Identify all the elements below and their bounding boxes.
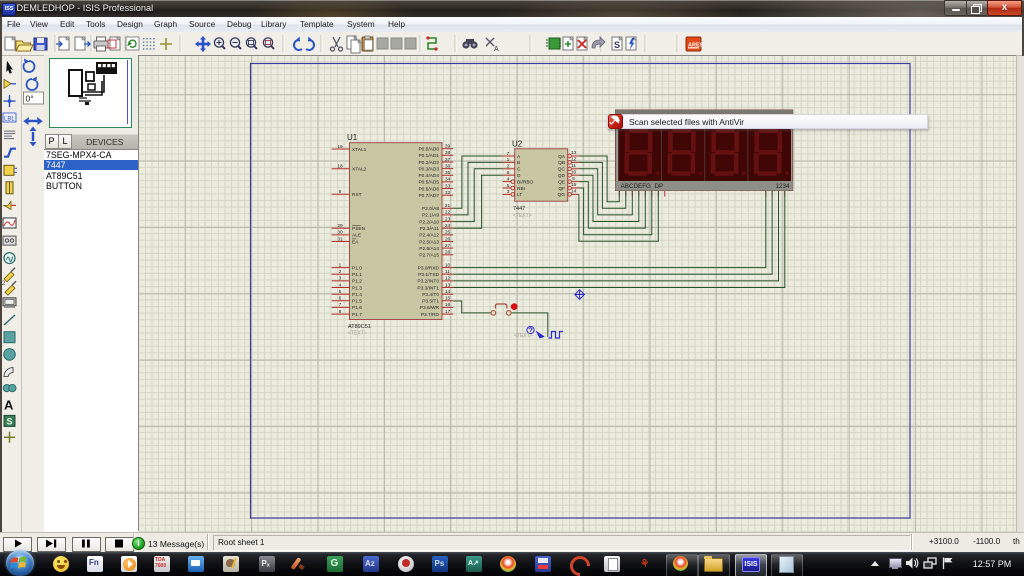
toolbar: cut [331, 37, 343, 51]
wire U2.QE to display E [579, 182, 645, 229]
svg-text:RST: RST [352, 192, 362, 198]
L button [58, 134, 72, 149]
svg-text:P2.5/A13: P2.5/A13 [419, 239, 439, 245]
svg-text:19: 19 [337, 144, 343, 150]
svg-text:QC: QC [558, 167, 566, 173]
svg-text:5: 5 [339, 289, 342, 295]
svg-text:LT: LT [517, 192, 522, 198]
svg-text:P1.1: P1.1 [352, 272, 362, 278]
wire U2.QA to display A [579, 156, 619, 202]
window buttons [944, 0, 968, 16]
svg-text:7: 7 [339, 302, 342, 308]
tool: component [4, 79, 16, 88]
wire P3.5 to button to clock [453, 301, 548, 337]
svg-text:4: 4 [339, 282, 342, 288]
preview MCU [69, 70, 82, 96]
svg-text:4: 4 [507, 176, 510, 182]
svg-text:QF: QF [558, 186, 565, 192]
svg-text:P3.6/WR: P3.6/WR [420, 305, 440, 311]
svg-text:15: 15 [445, 296, 451, 302]
svg-text:36: 36 [445, 163, 451, 169]
tool: 2dcircle [4, 349, 16, 361]
wire P2.1/A9 to U2.B [453, 162, 502, 215]
svg-text:P0.0/AD0: P0.0/AD0 [418, 147, 439, 153]
wire U2.QD to display D [579, 175, 639, 221]
taskbar [0, 552, 1024, 576]
svg-text:<TEXT>: <TEXT> [348, 331, 367, 337]
svg-text:B: B [517, 160, 520, 166]
svg-text:39: 39 [445, 144, 451, 150]
wire P2.2/A10 to U2.C [453, 169, 502, 222]
tool: subcircuit [4, 165, 17, 175]
status bar [0, 532, 1024, 554]
svg-text:P1.2: P1.2 [352, 279, 362, 285]
svg-text:35: 35 [445, 170, 451, 176]
toolbar: ares [686, 37, 704, 51]
taskbar app button isis [735, 554, 767, 576]
svg-text:9: 9 [572, 176, 575, 182]
sheet border [251, 64, 911, 519]
button [491, 303, 518, 315]
clock generator DCLOCK [527, 326, 563, 338]
svg-text:QB: QB [558, 160, 565, 166]
svg-text:29: 29 [337, 223, 343, 229]
svg-text:AT89C51: AT89C51 [348, 324, 371, 330]
taskbar app button page [771, 554, 803, 576]
toolbar: copy [347, 36, 357, 49]
svg-text:ABCDEFG DP: ABCDEFG DP [621, 183, 664, 190]
svg-text:30: 30 [337, 230, 343, 236]
wire U2.QC to display C [579, 169, 632, 215]
svg-text:27: 27 [445, 243, 451, 249]
taskbar icon fn [87, 556, 103, 572]
toolbar: block-ops [377, 38, 388, 49]
P button [45, 134, 59, 149]
taskbar icon palette [223, 556, 239, 572]
tool: selector [6, 61, 13, 74]
toolbar: script [612, 37, 622, 50]
tool: 2dtext [4, 397, 14, 412]
svg-text:37: 37 [445, 157, 451, 163]
taskbar icon smiley [53, 556, 69, 572]
tool: textscript [4, 131, 15, 139]
taskbar icon px [259, 556, 275, 572]
tool: instrument [3, 298, 16, 308]
svg-text:P3.7/RD: P3.7/RD [421, 312, 440, 318]
svg-text:P1.3: P1.3 [352, 285, 362, 291]
svg-text:P0.4/AD4: P0.4/AD4 [418, 173, 439, 179]
svg-text:14: 14 [571, 189, 577, 195]
U2 left pins [503, 151, 534, 198]
svg-text:23: 23 [445, 216, 451, 222]
svg-text:P2.6/A14: P2.6/A14 [419, 246, 439, 252]
svg-text:P3.1/TXD: P3.1/TXD [418, 272, 439, 278]
svg-text:<TEXT>: <TEXT> [513, 213, 532, 219]
taskbar icon doc [604, 556, 620, 572]
toolbar: grid [143, 38, 155, 50]
svg-text:S: S [7, 416, 13, 426]
svg-text:11: 11 [445, 269, 450, 275]
svg-text:QG: QG [558, 192, 566, 198]
svg-text:P0.6/AD6: P0.6/AD6 [418, 186, 439, 192]
7-segment display DS1 [616, 110, 793, 191]
svg-text:22: 22 [445, 210, 451, 216]
tool: 2dsymbol [4, 415, 15, 426]
preview display [96, 62, 117, 74]
mirror vertical [30, 127, 37, 147]
svg-text:10: 10 [571, 169, 577, 175]
svg-text:1: 1 [339, 262, 342, 268]
svg-text:P0.2/AD2: P0.2/AD2 [418, 160, 439, 166]
toolbar: zoom-out [230, 38, 241, 49]
taskbar icon ps [432, 556, 448, 572]
start orb [6, 550, 34, 576]
toolbar: mark-area [110, 37, 120, 50]
tool: iprobe [2, 281, 16, 295]
svg-text:18: 18 [337, 164, 343, 170]
svg-text:17: 17 [445, 309, 451, 315]
svg-text:2: 2 [339, 269, 342, 275]
taskbar icon az [363, 556, 379, 572]
svg-text:D: D [517, 173, 521, 179]
svg-text:P3.4/T0: P3.4/T0 [422, 292, 439, 298]
toolbar: zoom-in [214, 38, 225, 49]
origin marker [575, 290, 585, 300]
tool: tape [3, 236, 16, 245]
schematic svg [139, 56, 1016, 532]
svg-text:13: 13 [571, 150, 577, 156]
svg-text:28: 28 [445, 250, 451, 256]
svg-text:8: 8 [339, 309, 342, 315]
svg-text:<TEXT>: <TEXT> [514, 333, 533, 339]
svg-text:33: 33 [445, 183, 451, 189]
wire display digit 1 to P3.0/RXD [453, 191, 766, 268]
svg-text:P2.0/A8: P2.0/A8 [422, 206, 439, 212]
toolbar: open [16, 41, 33, 51]
svg-text:P3.5/T1: P3.5/T1 [422, 299, 439, 305]
taskbar icon ball [398, 556, 414, 572]
svg-text:21: 21 [445, 203, 451, 209]
toolbar: new [5, 37, 15, 50]
wire display digit 3 to P3.2/INT0 [453, 191, 778, 281]
svg-text:LBL: LBL [4, 117, 15, 123]
svg-text:S: S [614, 40, 620, 50]
toolbar: pan [195, 36, 211, 52]
taskbar app button chrome [666, 554, 698, 576]
svg-text:P0.5/AD5: P0.5/AD5 [418, 180, 439, 186]
svg-text:32: 32 [445, 190, 451, 196]
svg-text:9: 9 [339, 189, 342, 195]
svg-text:1: 1 [507, 157, 510, 163]
taskbar icon g [327, 556, 343, 572]
svg-text:PSEN: PSEN [352, 226, 366, 232]
toolbar: origin [160, 38, 172, 50]
tool: terminal [6, 182, 13, 194]
svg-text:24: 24 [445, 223, 451, 229]
wire P2.3/A11 to U2.D [453, 175, 502, 228]
tool: vprobe [4, 268, 15, 282]
svg-text:P0.7/AD7: P0.7/AD7 [418, 193, 439, 199]
svg-text:P2.1/A9: P2.1/A9 [422, 213, 439, 219]
decoder U2 7447 [512, 140, 568, 220]
taskbar icon pen [291, 556, 307, 572]
wire display digit 2 to P3.1/TXD [453, 191, 772, 275]
toolbar: goto-sheet [592, 37, 605, 48]
taskbar icon av [466, 556, 482, 572]
svg-text:P2.4/A12: P2.4/A12 [419, 233, 439, 239]
tool: 2dpath [3, 385, 16, 392]
svg-text:P1.7: P1.7 [352, 312, 362, 318]
svg-text:13: 13 [445, 282, 451, 288]
svg-text:3: 3 [339, 276, 342, 282]
svg-text:P2.3/A11: P2.3/A11 [420, 226, 440, 232]
U1 right pins [417, 144, 453, 318]
svg-text:P1.4: P1.4 [352, 292, 362, 298]
title bar [0, 0, 1024, 17]
svg-text:P1.5: P1.5 [352, 299, 362, 305]
wires display digits to P3.0-P3.3 [453, 191, 785, 288]
mirror horizontal [23, 117, 43, 125]
toolbar: export [75, 37, 85, 50]
svg-text:10: 10 [445, 262, 451, 268]
svg-text:P3.2/INT0: P3.2/INT0 [417, 279, 439, 285]
U2 right pins [558, 150, 579, 198]
toolbar: search [462, 39, 477, 49]
preview window [49, 58, 132, 128]
sim stop button [105, 537, 134, 552]
taskbar icon creative [569, 556, 585, 572]
svg-text:2: 2 [507, 164, 510, 170]
svg-text:XTAL1: XTAL1 [352, 147, 367, 153]
svg-text:11: 11 [571, 163, 576, 169]
svg-text:RBI: RBI [517, 186, 525, 192]
toolbar: property [486, 38, 494, 46]
tool: 2darc [4, 368, 13, 377]
toolbar: import [59, 37, 69, 50]
tool: 2dline [4, 315, 15, 325]
svg-text:QE: QE [558, 179, 565, 185]
tool: generator [4, 253, 15, 264]
toolbar: redo [306, 40, 314, 50]
svg-text:5: 5 [507, 183, 510, 189]
toolbar: add-sheet [563, 37, 573, 50]
sim play button [3, 537, 32, 552]
coords panel [921, 535, 1021, 549]
message icon [132, 537, 145, 550]
U1 left pins [332, 144, 367, 318]
svg-text:34: 34 [445, 177, 451, 183]
svg-text:2: 2 [2, 281, 6, 287]
taskbar icon floppy [535, 556, 551, 572]
left strips [0, 56, 22, 532]
toolbar: paste [362, 36, 373, 51]
svg-text:P0.3/AD3: P0.3/AD3 [418, 166, 439, 172]
svg-text:A: A [494, 46, 499, 53]
svg-text:P1.6: P1.6 [352, 305, 362, 311]
banner [607, 114, 928, 130]
svg-text:26: 26 [445, 236, 451, 242]
toolbar: print [94, 37, 108, 51]
svg-text:P1.0: P1.0 [352, 265, 362, 271]
tray [871, 561, 879, 566]
root sheet panel [213, 535, 911, 551]
tool: devicepin [4, 201, 16, 209]
svg-text:7447: 7447 [513, 206, 525, 212]
svg-text:ALE: ALE [352, 233, 361, 239]
op-amp U1 [347, 133, 442, 337]
svg-text:0°: 0° [26, 94, 34, 104]
svg-text:38: 38 [445, 150, 451, 156]
tool: wirelabel [3, 113, 16, 123]
wire display digit 4 to P3.3/INT1 [453, 191, 785, 288]
svg-text:P2.7/A15: P2.7/A15 [419, 253, 439, 259]
DEVICES header [72, 134, 138, 150]
svg-text:C: C [517, 167, 521, 173]
tool: 2dbox [4, 332, 15, 343]
svg-text:U1: U1 [347, 133, 358, 142]
taskbar icon msg [188, 556, 204, 572]
toolbar: undo [294, 40, 302, 50]
tool: 2dmarker [4, 432, 15, 443]
canvas [139, 56, 1016, 532]
svg-text:P2.2/A10: P2.2/A10 [419, 219, 439, 225]
svg-text:12: 12 [445, 276, 451, 282]
svg-text:25: 25 [445, 230, 451, 236]
wire U2.QB to display B [579, 162, 626, 208]
svg-text:U2: U2 [512, 140, 523, 149]
svg-text:1234: 1234 [775, 183, 790, 190]
antivir umbrella icon [608, 114, 624, 130]
tool: graph [3, 218, 16, 228]
toolbar: electrical-check [626, 37, 636, 50]
preview wires [82, 75, 104, 95]
svg-text:P3.3/INT1: P3.3/INT1 [417, 285, 439, 291]
taskbar icon acrobat [638, 556, 654, 572]
wire U2.QF to display F [579, 188, 652, 235]
svg-text:P0.1/AD1: P0.1/AD1 [418, 153, 439, 159]
svg-text:6: 6 [339, 296, 342, 302]
svg-text:3: 3 [507, 189, 510, 195]
sim step button [37, 537, 66, 552]
menu bar [0, 17, 1024, 33]
preview 7447 [86, 72, 94, 81]
svg-text:EA: EA [352, 239, 359, 245]
toolbar: zoom-all [246, 38, 257, 49]
toolbar [0, 32, 1024, 56]
wires U2 outputs to display segments [579, 156, 658, 241]
tool: bus [4, 149, 16, 157]
app icon [2, 3, 16, 16]
toolbar: delete [577, 37, 587, 50]
wire U2.QG to display G [579, 191, 658, 242]
taskbar icon chromium [500, 556, 516, 572]
toolbar: refresh [126, 37, 139, 50]
taskbar icon wmp [121, 556, 137, 572]
wires P2 to U2 [453, 156, 502, 228]
clock [964, 559, 1020, 569]
toolbar: save [34, 38, 47, 50]
rotate cw [23, 59, 34, 72]
svg-text:16: 16 [445, 302, 451, 308]
rotate ccw [27, 77, 38, 90]
svg-text:P3.0/RXD: P3.0/RXD [418, 265, 440, 271]
toolbar: zoom-area [263, 38, 274, 49]
tool: junction [4, 95, 16, 107]
svg-text:QD: QD [558, 173, 566, 179]
svg-text:QA: QA [558, 154, 566, 160]
svg-text:BI/RBO: BI/RBO [517, 179, 534, 185]
svg-text:15: 15 [571, 182, 577, 188]
taskbar icon tda [154, 556, 170, 572]
svg-text:14: 14 [445, 289, 451, 295]
svg-text:7: 7 [507, 151, 510, 157]
sim pause button [72, 537, 101, 552]
svg-text:31: 31 [337, 236, 343, 242]
svg-text:12: 12 [571, 157, 577, 163]
taskbar app button folder [698, 554, 730, 576]
display pins [619, 191, 785, 197]
wire P2.0/A8 to U2.A [453, 156, 502, 208]
toolbar: wire-edit [426, 36, 437, 50]
svg-text:A: A [4, 397, 14, 412]
svg-text:XTAL2: XTAL2 [352, 167, 367, 173]
toolbar: pick-device [546, 38, 561, 49]
device list [44, 149, 138, 533]
angle box [24, 92, 44, 104]
svg-text:6: 6 [507, 170, 510, 176]
